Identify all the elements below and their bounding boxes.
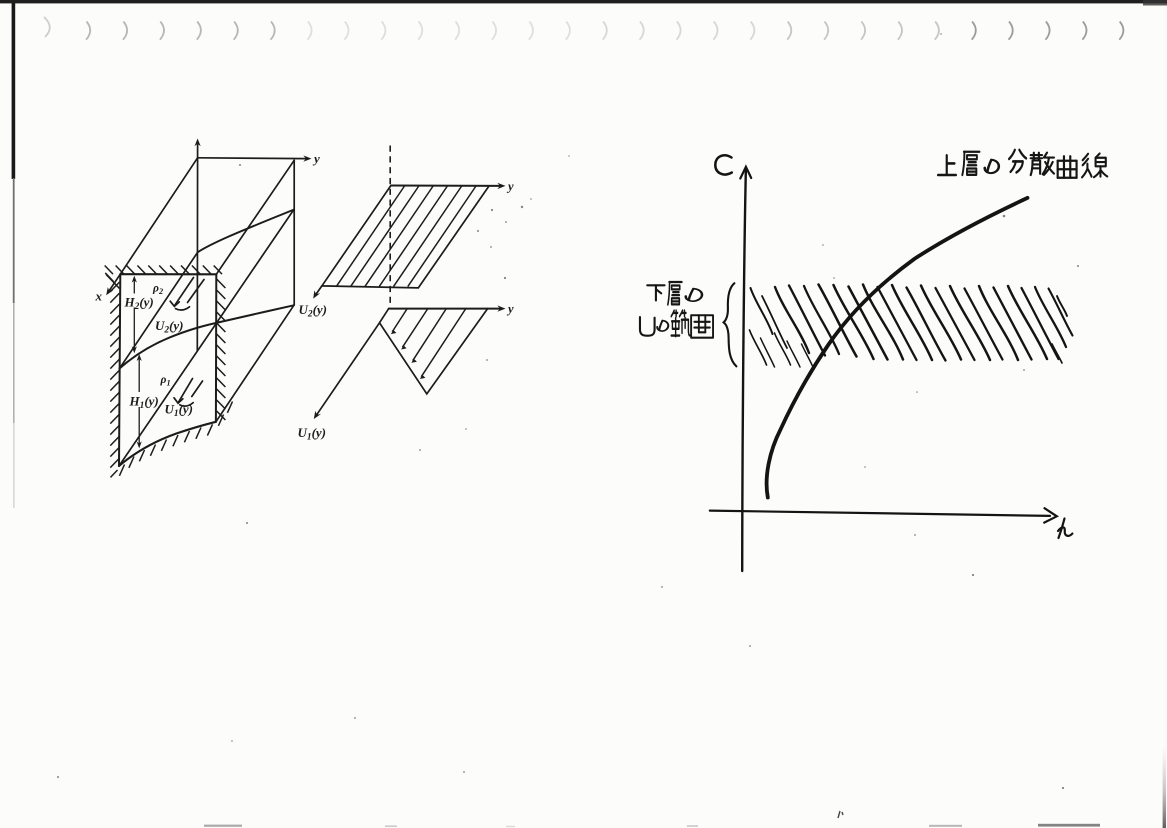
3D channel: bottom-right receding edge	[216, 305, 294, 422]
graph: brace {	[724, 283, 737, 366]
svg-text:y: y	[506, 179, 514, 193]
3D channel: y-axis	[198, 157, 307, 160]
graph: label Uの範囲	[640, 317, 655, 336]
scan: left margin black bar	[12, 3, 16, 179]
3D channel: long diagonal (bottom-left receding / interface edge)	[119, 210, 294, 466]
3D channel: interface curve on back plane	[198, 210, 294, 253]
U1 profile: V-shaped profile	[380, 309, 488, 394]
3D channel: interface curve on front face	[120, 305, 294, 368]
upper layer flow arrow	[170, 278, 204, 311]
3D channel: x-axis	[109, 274, 121, 291]
graph: hatched band (range of lower-layer U)	[750, 285, 1073, 368]
3D channel: left wall front edge	[119, 274, 120, 466]
scan: bottom edge smudges	[204, 811, 1100, 827]
svg-text:y: y	[506, 302, 514, 316]
lower layer flow arrow	[174, 379, 203, 407]
svg-text:U2(y): U2(y)	[155, 318, 184, 336]
scan: spiral binding hole shadows	[44, 17, 1123, 40]
graph: title 上層の分散曲線 (handwritten)	[938, 155, 956, 175]
U1 profile: velocity hatch arrows	[391, 309, 466, 379]
U2 profile: dashed centre line	[389, 146, 391, 308]
3D channel: right wall top receding edge	[216, 160, 294, 274]
3D channel: front bottom curve	[119, 422, 216, 466]
3D channel: back-right wall edge	[293, 160, 295, 304]
U2 profile: axis arrow to lower-left	[316, 286, 322, 294]
3D channel: z-axis	[196, 144, 198, 351]
U2 profile: y axis	[391, 185, 501, 187]
3D channel: interface left receding edge	[120, 252, 198, 368]
graph: k label (handwritten)	[1058, 519, 1072, 539]
graph: k axis (horizontal)	[710, 511, 1050, 516]
svg-text:ρ1: ρ1	[160, 374, 171, 388]
3D channel: bottom hatching	[119, 402, 232, 476]
3D channel: lid hatching	[105, 266, 222, 289]
scan: top edge black strip	[0, 0, 1167, 3]
svg-text:U2(y): U2(y)	[299, 302, 328, 320]
H2 measure line	[133, 279, 135, 351]
svg-text:x: x	[95, 289, 103, 304]
U1 profile: y axis	[389, 308, 501, 310]
svg-text:U1(y): U1(y)	[165, 402, 194, 420]
3D channel: left wall top receding edge	[120, 158, 197, 274]
graph: C label	[715, 155, 732, 174]
H1 measure line	[138, 357, 140, 446]
scan: paper specks	[57, 33, 1079, 789]
svg-text:y: y	[312, 151, 320, 166]
3D channel: left wall hatching	[110, 282, 119, 477]
3D channel: right wall hatching	[217, 279, 226, 420]
svg-text:H1(y): H1(y)	[129, 394, 159, 412]
svg-text:ρ2: ρ2	[152, 283, 163, 297]
graph: label 下層の	[647, 285, 664, 300]
3D channel: lid front edge (top of box)	[120, 273, 216, 275]
graph: C axis (vertical)	[742, 168, 746, 571]
graph: dispersion curve of upper layer	[767, 198, 1028, 498]
U2 profile: hatching	[336, 186, 476, 287]
svg-text:H2(y): H2(y)	[124, 295, 154, 313]
svg-text:U1(y): U1(y)	[298, 425, 327, 443]
U1 profile: long axis arrow	[317, 323, 380, 415]
U2 profile: parallelogram	[322, 186, 489, 288]
3D channel: right wall front edge	[215, 274, 217, 422]
